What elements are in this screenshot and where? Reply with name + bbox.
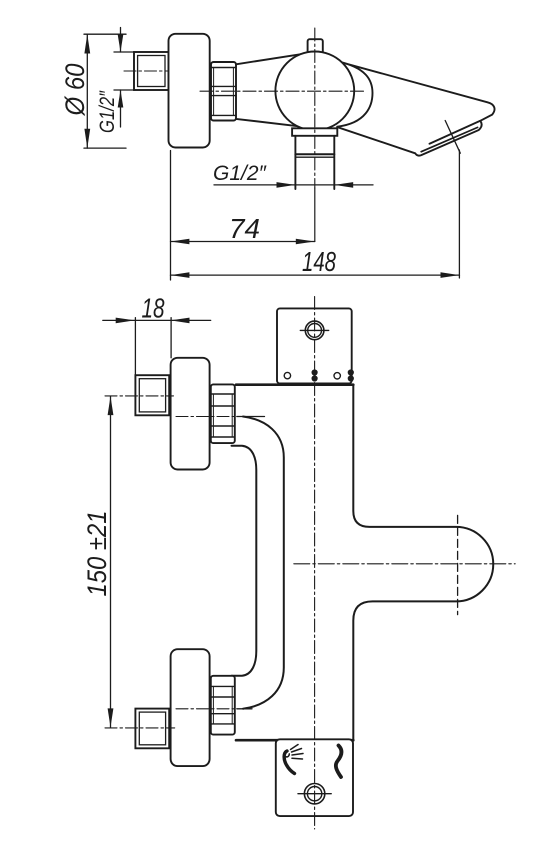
body cone top line	[236, 54, 301, 64]
outlet groove line 2	[295, 156, 334, 158]
hex nut (top view)	[211, 62, 236, 121]
arrow Ø60 bottom	[84, 129, 90, 148]
arrow 18 right (points left)	[171, 318, 190, 324]
vertical centerline through knob	[314, 28, 316, 188]
body cone bottom line	[236, 119, 300, 127]
screw top: crosshair horizontal	[300, 329, 328, 331]
centerline of square (top view)	[124, 70, 179, 72]
outlet groove line 1	[295, 153, 334, 155]
spout silhouette	[337, 61, 495, 155]
arrow 74 left	[171, 239, 190, 245]
scale mark 8 center (two dots)	[312, 369, 318, 375]
extension line square bottom	[114, 89, 135, 91]
extension line 18 right	[170, 318, 172, 358]
nut chamfer line 2	[211, 85, 236, 87]
outlet tube wall right	[333, 136, 335, 189]
body bottom shoulder line	[236, 739, 353, 742]
centerline bottom square	[105, 727, 175, 729]
extension line left (escutcheon edge)	[170, 151, 172, 281]
svg-text:G1/2″: G1/2″	[96, 90, 119, 133]
body S-curve outer (left edge)	[232, 446, 257, 676]
arrow 148 left	[171, 272, 190, 278]
screw bottom: outer circle	[304, 784, 324, 804]
centerline stub top	[237, 416, 265, 418]
escutcheon (top view)	[169, 34, 210, 148]
centerline top square	[105, 395, 174, 397]
arrow 150 top (points up)	[108, 396, 114, 415]
arrow 148 right	[441, 272, 460, 278]
arrow 18 left (points right)	[116, 318, 135, 324]
outlet flange	[292, 128, 337, 136]
screw top: inner circle	[308, 324, 322, 338]
dimension 148 line	[171, 274, 460, 276]
thermostat knob circle	[275, 52, 354, 131]
body right edge with diverter knob	[353, 385, 493, 740]
vertical centerline bottom view	[314, 297, 316, 830]
scale mark o right	[334, 373, 340, 379]
screw bottom: crosshair horizontal	[298, 793, 331, 795]
bottom connection: square inner rect	[139, 712, 165, 745]
nut facet line left	[213, 68, 215, 116]
svg-text:148: 148	[302, 246, 336, 277]
knob horizontal centerline	[294, 563, 515, 565]
screw bottom: inner circle	[307, 787, 321, 801]
aerator screen double line	[421, 127, 477, 151]
body S-curve inner	[243, 417, 284, 709]
dimension G1/2 outlet line	[214, 184, 373, 186]
top connection: square inner rect	[139, 379, 165, 412]
icon bath flow wave (right)	[336, 746, 342, 778]
svg-text:G1/2″: G1/2″	[213, 162, 268, 185]
arrow G1/2 top (points down)	[118, 35, 124, 53]
screw top: outer circle	[305, 321, 324, 340]
bottom nut chamfer lines	[211, 685, 235, 687]
body top shoulder line	[236, 383, 353, 386]
extension line diagonal at spout tip	[445, 121, 460, 154]
knob cap (top view)	[308, 39, 323, 55]
dimension G1/2 (rotated) line top segment	[120, 28, 122, 53]
extension line vertical from spout tip	[458, 150, 460, 278]
bottom connection: escutcheon	[171, 649, 210, 766]
arrow G1/2 outlet right (points left)	[334, 182, 353, 188]
svg-text:18: 18	[142, 293, 165, 324]
dimension G1/2 (rotated) line bottom segment	[120, 90, 122, 127]
knob hidden edge (dashed)	[457, 515, 459, 614]
dimension 74 line	[171, 241, 315, 243]
arrow 150 bottom (points down)	[108, 708, 114, 727]
top connection: wall union square	[135, 375, 169, 415]
nut facet line right	[232, 68, 234, 116]
icon shower spray (left)	[284, 745, 303, 774]
centerline stub bottom	[237, 708, 252, 710]
main horizontal centerline (top view)	[200, 90, 367, 92]
scale mark o left	[284, 372, 290, 378]
scale mark 8 far right (two dots)	[348, 369, 354, 375]
top nut chamfer lines	[211, 393, 235, 395]
centerline bottom connection axis	[176, 708, 237, 710]
aerator top edge (junction line)	[430, 121, 481, 144]
svg-text:150 ±21: 150 ±21	[82, 511, 112, 597]
arrow Ø60 top	[84, 34, 90, 53]
wall union square (top view)	[134, 52, 169, 90]
bottom connection: hex nut	[211, 676, 235, 735]
outlet centerline extension (solid)	[314, 188, 316, 242]
centerline top connection axis	[176, 416, 237, 418]
dimension 150±21 line	[110, 396, 112, 727]
svg-text:74: 74	[229, 213, 260, 244]
bottom function box	[276, 739, 353, 816]
nut chamfer line 3	[211, 95, 236, 97]
wall union square inner rect	[138, 56, 165, 87]
extension line 18 left	[134, 318, 136, 376]
arrow G1/2 outlet left (points right)	[277, 182, 296, 188]
extension line square top	[114, 51, 135, 53]
nut chamfer line 1	[211, 67, 236, 69]
dimension Ø60 extension line bottom	[84, 147, 126, 149]
arrow G1/2 bottom (points up)	[118, 90, 124, 108]
dimension Ø60 line	[86, 34, 88, 148]
top connection: hex nut	[211, 384, 235, 443]
dimension Ø60 extension line top	[84, 33, 126, 35]
top cartridge box	[277, 308, 352, 383]
dimension 18 line	[103, 319, 211, 321]
arrow 74 right	[296, 239, 315, 245]
top connection: escutcheon	[171, 358, 210, 470]
outlet tube wall left	[294, 136, 296, 189]
svg-text:Ø 60: Ø 60	[60, 64, 90, 117]
nut chamfer line 4	[211, 114, 236, 116]
bottom connection: wall union square	[135, 709, 169, 749]
